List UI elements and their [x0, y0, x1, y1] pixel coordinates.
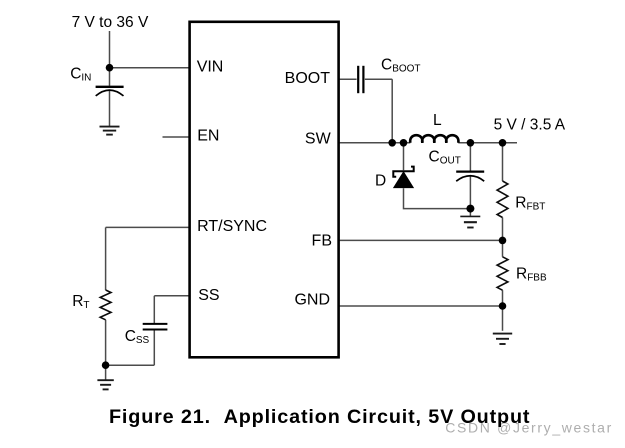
- svg-text:RT/SYNC: RT/SYNC: [197, 218, 267, 235]
- svg-text:EN: EN: [197, 128, 219, 145]
- svg-text:BOOT: BOOT: [285, 70, 331, 87]
- svg-text:SW: SW: [305, 131, 332, 148]
- svg-text:D: D: [375, 173, 386, 190]
- svg-text:L: L: [433, 112, 442, 129]
- svg-text:FB: FB: [312, 233, 332, 250]
- svg-text:GND: GND: [294, 292, 330, 309]
- svg-text:VIN: VIN: [197, 59, 224, 76]
- svg-text:5 V / 3.5 A: 5 V / 3.5 A: [494, 116, 566, 133]
- svg-text:7 V to 36 V: 7 V to 36 V: [72, 14, 149, 31]
- svg-text:SS: SS: [198, 287, 219, 304]
- svg-text:Figure 21. Application Circui: Figure 21. Application Circuit, 5V Outpu…: [109, 406, 530, 428]
